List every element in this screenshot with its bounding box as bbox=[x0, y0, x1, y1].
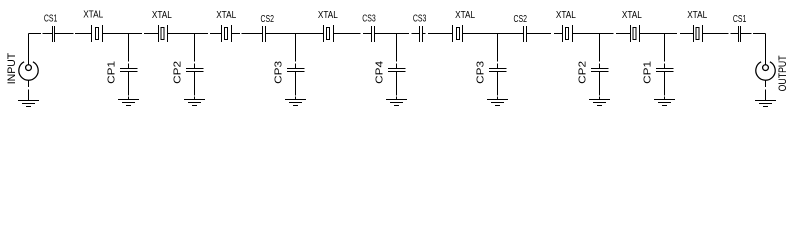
svg-text:CS2: CS2 bbox=[514, 14, 528, 25]
svg-text:XTAL: XTAL bbox=[455, 10, 475, 21]
svg-text:CS1: CS1 bbox=[733, 14, 747, 25]
wire connector J2 to ground bbox=[765, 80, 767, 100]
svg-text:CS3: CS3 bbox=[413, 14, 427, 25]
node junction x=128.5 bbox=[128, 34, 130, 69]
ground bbox=[755, 101, 776, 107]
capacitor CS3 (series) bbox=[420, 26, 423, 42]
node junction x=599.5 bbox=[599, 34, 601, 69]
svg-text:XTAL: XTAL bbox=[622, 10, 642, 21]
ground bbox=[654, 100, 675, 106]
capacitor CP2 (shunt) bbox=[591, 69, 609, 100]
capacitor CS1 (series) bbox=[53, 26, 55, 42]
capacitor CS1 (series) bbox=[739, 26, 741, 42]
capacitor CS3 (series) bbox=[372, 26, 375, 42]
node junction x=664.5 bbox=[664, 34, 666, 69]
svg-text:CP1: CP1 bbox=[642, 61, 653, 84]
node junction x=497.5 bbox=[497, 34, 499, 69]
svg-text:CP4: CP4 bbox=[374, 61, 385, 84]
svg-text:XTAL: XTAL bbox=[216, 10, 236, 21]
crystal Y5 (XTAL) bbox=[453, 25, 463, 42]
connector J2 OUTPUT bbox=[756, 62, 775, 80]
crystal Y1 (XTAL) bbox=[92, 25, 103, 42]
svg-text:XTAL: XTAL bbox=[318, 10, 338, 21]
capacitor CP1 (shunt) bbox=[120, 69, 138, 100]
capacitor CP3 (shunt) bbox=[489, 69, 507, 100]
ground bbox=[285, 100, 306, 106]
node junction x=295.5 bbox=[295, 34, 297, 69]
svg-text:CP3: CP3 bbox=[475, 61, 486, 84]
svg-text:CP2: CP2 bbox=[577, 61, 588, 84]
svg-text:CP1: CP1 bbox=[106, 61, 117, 84]
ground bbox=[184, 100, 205, 106]
svg-text:CS3: CS3 bbox=[362, 14, 376, 25]
capacitor CS2 (series) bbox=[524, 26, 527, 42]
svg-text:CP3: CP3 bbox=[273, 61, 284, 84]
svg-text:OUTPUT: OUTPUT bbox=[777, 55, 789, 91]
wire connector J1 to ground bbox=[28, 80, 30, 100]
wire vertical to connector J1 bbox=[28, 34, 30, 66]
svg-text:INPUT: INPUT bbox=[6, 53, 18, 85]
node junction x=396.5 bbox=[396, 34, 398, 69]
svg-text:XTAL: XTAL bbox=[687, 10, 707, 21]
ground bbox=[589, 100, 610, 106]
svg-text:XTAL: XTAL bbox=[152, 10, 172, 21]
svg-text:XTAL: XTAL bbox=[83, 10, 103, 21]
crystal Y6 (XTAL) bbox=[563, 25, 573, 42]
crystal Y7 (XTAL) bbox=[631, 25, 640, 42]
ground bbox=[118, 100, 139, 106]
svg-text:XTAL: XTAL bbox=[556, 10, 576, 21]
svg-text:CP2: CP2 bbox=[172, 61, 183, 84]
capacitor CP3 (shunt) bbox=[287, 69, 305, 100]
crystal Y3 (XTAL) bbox=[222, 25, 232, 42]
connector J1 INPUT bbox=[19, 62, 38, 80]
capacitor CP1 (shunt) bbox=[656, 69, 674, 100]
capacitor CP4 (shunt) bbox=[388, 69, 406, 100]
capacitor CP2 (shunt) bbox=[186, 69, 204, 100]
capacitor CS2 (series) bbox=[263, 26, 266, 42]
node junction x=194.5 bbox=[194, 34, 196, 69]
crystal Y2 (XTAL) bbox=[159, 25, 168, 42]
svg-text:CS2: CS2 bbox=[261, 14, 275, 25]
wire main signal line bbox=[29, 33, 766, 35]
ground bbox=[386, 100, 407, 106]
crystal Y4 (XTAL) bbox=[324, 25, 334, 42]
ground bbox=[487, 100, 508, 106]
ground bbox=[18, 101, 39, 107]
wire vertical to connector J2 bbox=[765, 34, 767, 66]
svg-text:CS1: CS1 bbox=[44, 13, 58, 24]
crystal Y8 (XTAL) bbox=[694, 25, 703, 42]
